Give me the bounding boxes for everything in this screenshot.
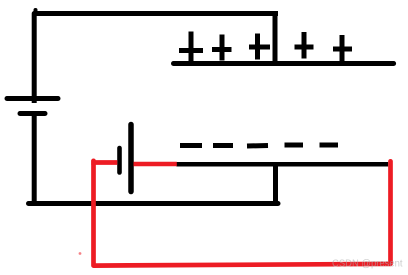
minus charge 1 — [180, 143, 202, 148]
svg-text:CSDN @present: CSDN @present — [332, 259, 403, 270]
capacitor bottom plate (black part) — [176, 162, 388, 167]
minus charge 2 — [213, 143, 233, 148]
plus charge 3 — [249, 34, 270, 60]
plus charge 1 — [179, 32, 203, 65]
plus charge 5 — [333, 35, 352, 64]
wire: lead from bottom plate down to bottom wire — [273, 165, 278, 204]
wire: top-right corner overshoot nub — [275, 11, 278, 16]
red wire from battery B2 long line to bottom plate — [134, 162, 177, 167]
minus charge 3 — [247, 143, 268, 149]
minus charge 4 — [285, 143, 304, 148]
wire: left vertical + top wire + right drop to top plate — [34, 14, 275, 104]
battery B2 long line (right terminal) — [128, 125, 134, 192]
battery B2 short line (left terminal) — [117, 148, 122, 173]
capacitor top plate — [174, 61, 394, 66]
wire: left vertical lower segment from battery to bottom wire — [32, 114, 37, 204]
wire: top-left corner overshoot nub — [34, 10, 38, 13]
red stray dot — [79, 252, 82, 255]
plus charge 2 — [212, 35, 232, 61]
battery B1 long plate (positive terminal) — [7, 96, 58, 101]
red wire from loop corner to battery B2 short line — [91, 160, 117, 165]
minus charge 5 — [320, 143, 339, 148]
red loop: left side, bottom, right side — [94, 161, 391, 266]
wire: bottom horizontal wire — [29, 201, 279, 206]
battery B1 short plate (negative terminal) — [20, 111, 45, 116]
plus charge 4 — [295, 32, 314, 59]
